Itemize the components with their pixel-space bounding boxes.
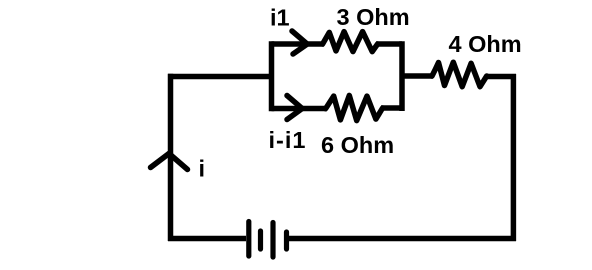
wire right rail bbox=[511, 74, 517, 241]
wire top right (4 Ohm to right rail) bbox=[487, 74, 517, 80]
svg-text:i: i bbox=[199, 156, 206, 182]
wire top branch right bbox=[376, 41, 402, 47]
svg-text:6 Ohm: 6 Ohm bbox=[321, 132, 394, 158]
svg-text:3 Ohm: 3 Ohm bbox=[337, 4, 410, 30]
node left bar of parallel box bbox=[269, 41, 275, 111]
wire bottom branch left bbox=[272, 106, 328, 112]
label i1 bbox=[270, 5, 290, 31]
label i bbox=[199, 156, 206, 182]
wire bottom left (left rail to battery) bbox=[168, 236, 246, 242]
resistor R2 6 Ohm bbox=[326, 95, 383, 120]
label i-i1 bbox=[269, 127, 307, 153]
wire top lead (left rail to parallel box) bbox=[168, 74, 272, 80]
battery V1 bbox=[249, 222, 287, 258]
wire left rail bbox=[168, 74, 174, 241]
current arrow i bbox=[151, 154, 188, 170]
label 4 Ohm bbox=[449, 31, 522, 57]
wire top branch left bbox=[272, 41, 325, 47]
label 6 Ohm bbox=[321, 132, 394, 158]
wire bottom branch right bbox=[381, 105, 402, 111]
wire box to 4 Ohm lead bbox=[402, 73, 433, 79]
resistor R3 4 Ohm bbox=[432, 62, 487, 86]
svg-text:i-i1: i-i1 bbox=[269, 127, 307, 153]
wire bottom right (battery to right rail) bbox=[289, 236, 516, 242]
svg-text:i1: i1 bbox=[270, 5, 290, 31]
current arrow i-i1 bbox=[287, 96, 302, 120]
resistor R1 3 Ohm bbox=[323, 32, 378, 52]
label 3 Ohm bbox=[337, 4, 410, 30]
svg-text:4 Ohm: 4 Ohm bbox=[449, 31, 522, 57]
current arrow i1 bbox=[292, 31, 307, 54]
node right bar of parallel box bbox=[399, 41, 405, 111]
